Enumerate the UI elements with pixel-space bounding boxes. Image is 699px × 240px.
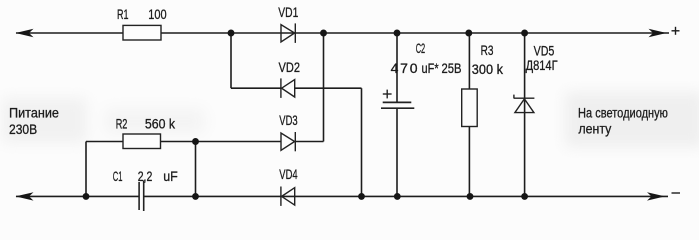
svg-text:VD4: VD4 <box>279 166 298 182</box>
svg-text:25В: 25В <box>442 61 462 76</box>
svg-text:560 k: 560 k <box>145 116 176 132</box>
svg-text:VD2: VD2 <box>279 60 300 76</box>
svg-text:R2: R2 <box>116 115 128 132</box>
svg-text:R3: R3 <box>481 42 494 58</box>
svg-text:Д814Г: Д814Г <box>526 58 558 74</box>
svg-text:C1: C1 <box>113 170 123 185</box>
svg-text:230В: 230В <box>9 121 37 137</box>
svg-text:Питание: Питание <box>9 105 59 121</box>
svg-text:uF*: uF* <box>422 61 439 77</box>
svg-text:R1: R1 <box>117 7 128 22</box>
svg-text:VD3: VD3 <box>279 112 298 128</box>
svg-text:VD1: VD1 <box>278 4 298 20</box>
svg-text:100: 100 <box>148 7 166 23</box>
svg-text:470: 470 <box>391 60 418 76</box>
svg-text:300 k: 300 k <box>472 61 503 77</box>
svg-text:VD5: VD5 <box>534 43 555 59</box>
svg-text:2,2: 2,2 <box>138 169 153 185</box>
svg-text:На светодиодную: На светодиодную <box>578 105 668 121</box>
svg-text:C2: C2 <box>416 42 425 57</box>
svg-text:ленту: ленту <box>578 121 611 137</box>
svg-text:uF: uF <box>163 168 178 184</box>
